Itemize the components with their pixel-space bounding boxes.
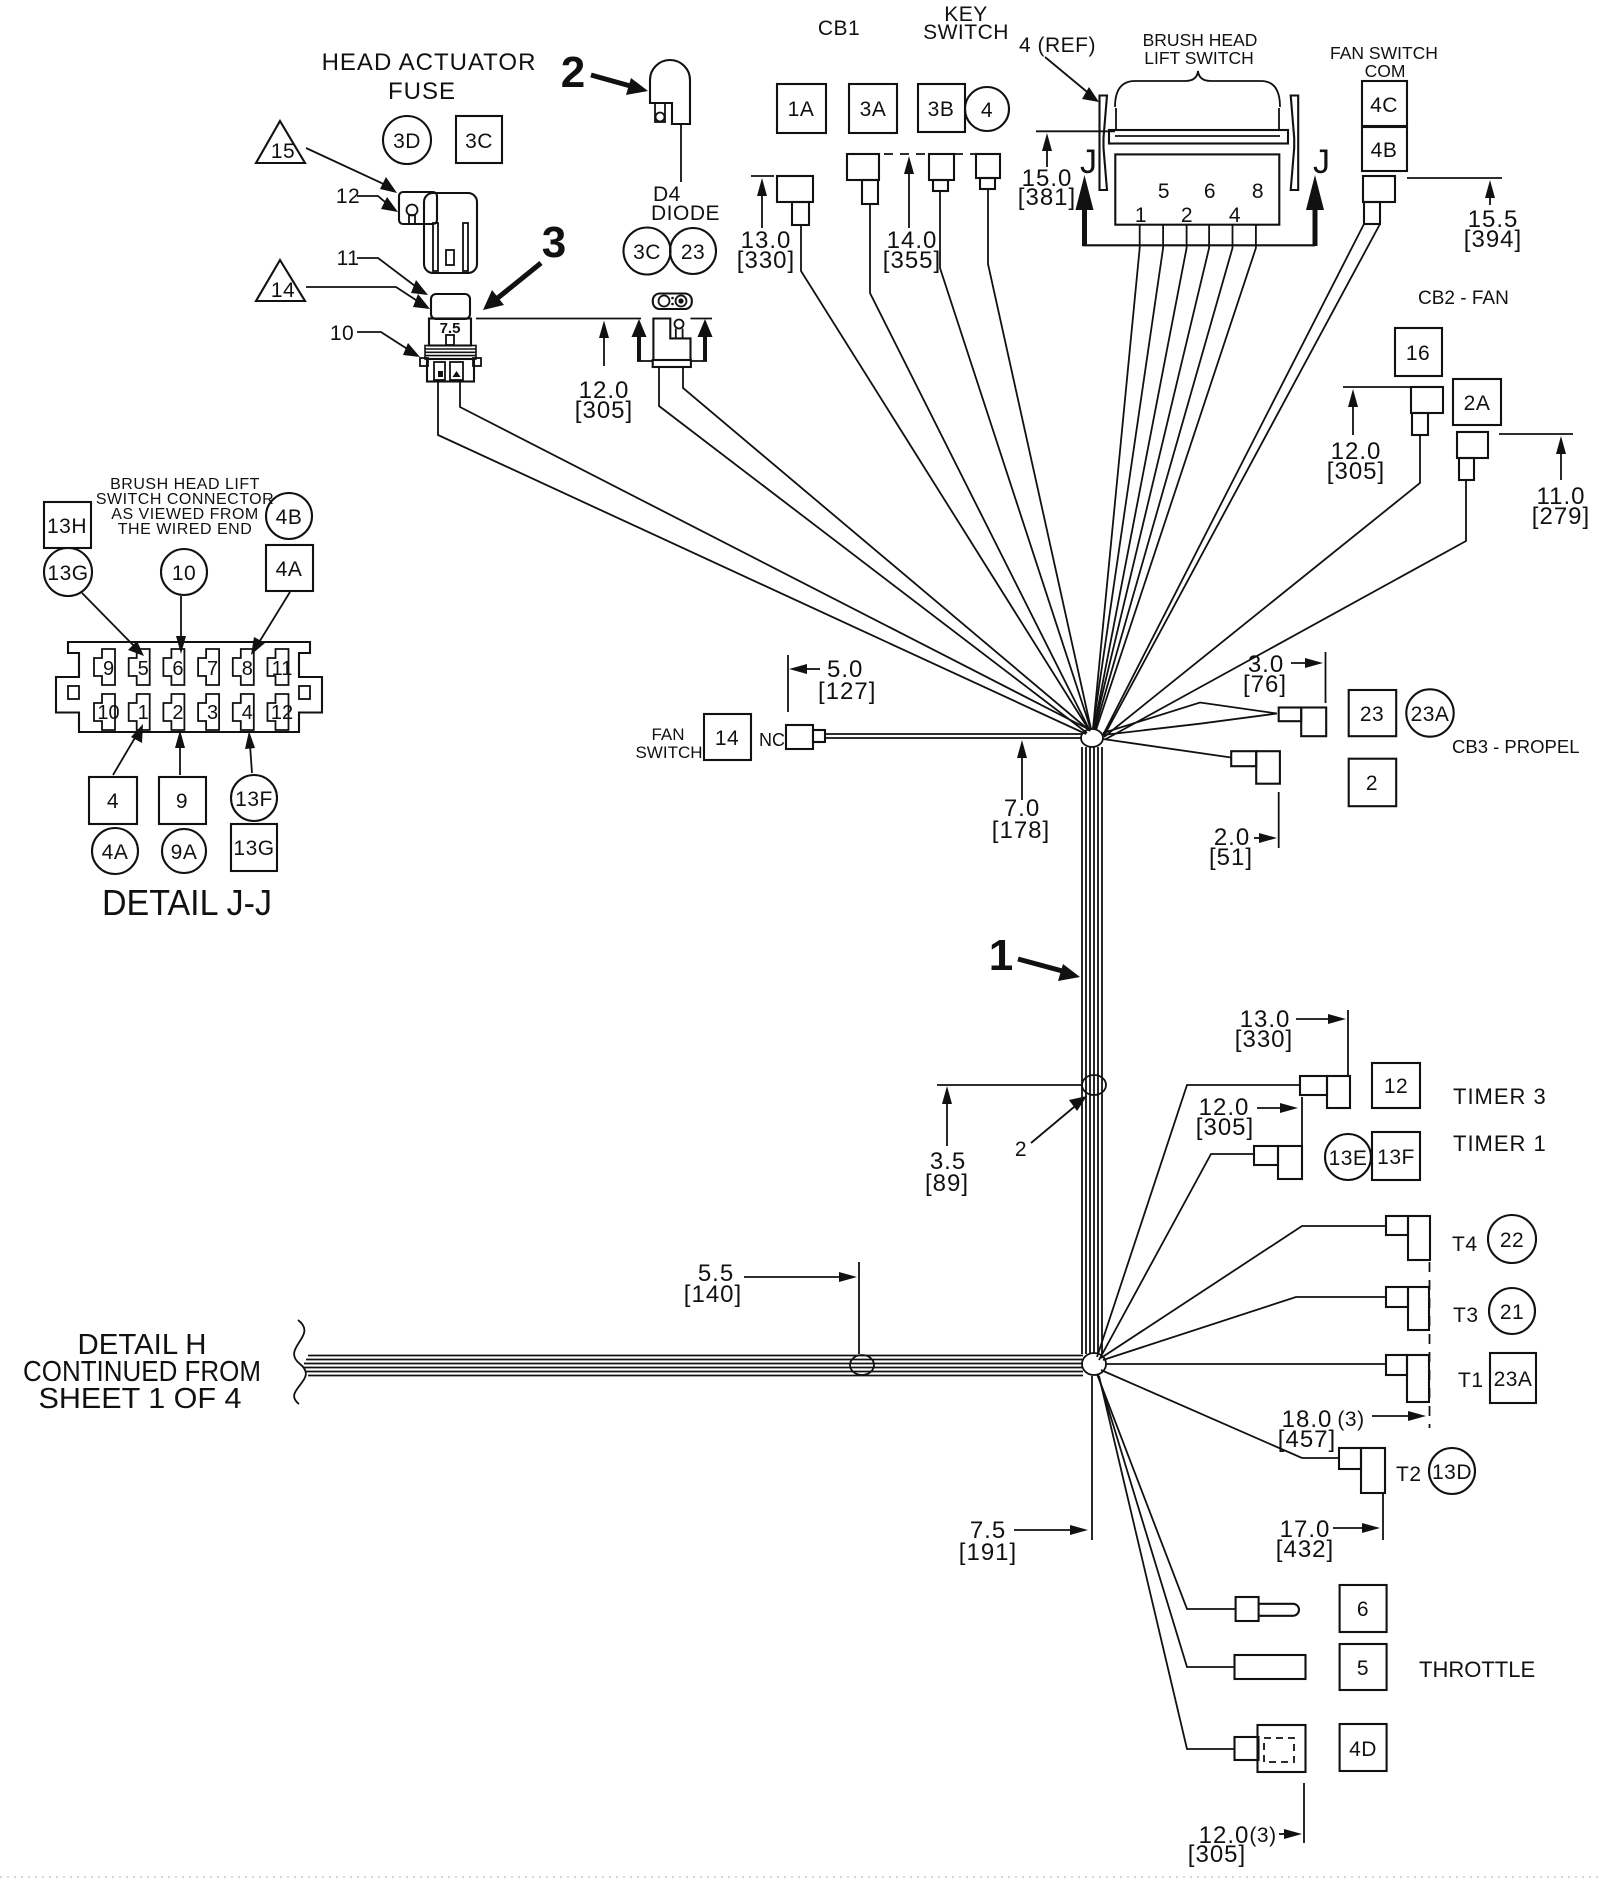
svg-text:COM: COM — [1365, 61, 1406, 81]
svg-text:1: 1 — [989, 931, 1013, 980]
svg-text:22: 22 — [1500, 1229, 1524, 1252]
svg-text:6: 6 — [1204, 180, 1216, 203]
svg-text:13F: 13F — [235, 788, 273, 811]
svg-text:13E: 13E — [1329, 1147, 1368, 1170]
svg-text:DIODE: DIODE — [651, 202, 720, 225]
svg-text:DETAIL J-J: DETAIL J-J — [102, 882, 272, 923]
svg-text:4: 4 — [1229, 204, 1241, 227]
svg-text:2: 2 — [172, 702, 183, 724]
svg-text:(3): (3) — [1337, 1408, 1364, 1431]
svg-text:SWITCH: SWITCH — [923, 21, 1009, 44]
svg-text:3: 3 — [542, 218, 566, 267]
svg-text:[457]: [457] — [1278, 1426, 1336, 1453]
svg-text:4: 4 — [242, 702, 253, 724]
svg-text:T2: T2 — [1396, 1463, 1422, 1486]
svg-text:[127]: [127] — [818, 678, 876, 705]
svg-text:THE WIRED END: THE WIRED END — [118, 521, 253, 538]
svg-text:8: 8 — [242, 658, 253, 680]
svg-text:[279]: [279] — [1532, 503, 1590, 530]
svg-text:23A: 23A — [1494, 1368, 1533, 1391]
svg-text:[76]: [76] — [1243, 671, 1287, 698]
svg-text:CB1: CB1 — [818, 17, 860, 40]
svg-text:FAN: FAN — [651, 725, 684, 744]
svg-text:3A: 3A — [860, 98, 887, 121]
svg-text:[355]: [355] — [883, 247, 941, 274]
svg-text:15: 15 — [271, 140, 295, 163]
svg-text:23A: 23A — [1411, 703, 1450, 726]
svg-text:[305]: [305] — [1188, 1841, 1246, 1868]
svg-text:23: 23 — [681, 241, 705, 264]
svg-text:12: 12 — [271, 702, 293, 724]
svg-text:13G: 13G — [47, 562, 88, 585]
svg-text:T4: T4 — [1452, 1233, 1478, 1256]
svg-text:2A: 2A — [1464, 392, 1491, 415]
svg-text:SHEET 1 OF 4: SHEET 1 OF 4 — [39, 1383, 242, 1415]
svg-text:3C: 3C — [465, 130, 493, 153]
svg-text:4: 4 — [981, 99, 993, 122]
svg-text:1: 1 — [138, 702, 149, 724]
svg-text:[178]: [178] — [992, 817, 1050, 844]
svg-text:[330]: [330] — [737, 247, 795, 274]
svg-text:2: 2 — [1015, 1138, 1027, 1161]
svg-text:[51]: [51] — [1209, 844, 1253, 871]
svg-text:THROTTLE: THROTTLE — [1419, 1657, 1535, 1682]
svg-text:4D: 4D — [1349, 1738, 1377, 1761]
svg-text:[191]: [191] — [959, 1539, 1017, 1566]
svg-text:12: 12 — [1384, 1075, 1408, 1098]
svg-text:[305]: [305] — [1196, 1114, 1254, 1141]
svg-text:J: J — [1080, 143, 1097, 181]
svg-text:[432]: [432] — [1276, 1536, 1334, 1563]
svg-text:10: 10 — [97, 702, 119, 724]
svg-text:CB2 - FAN: CB2 - FAN — [1418, 288, 1509, 309]
svg-text:BRUSH HEAD: BRUSH HEAD — [1143, 30, 1258, 50]
svg-text:6: 6 — [172, 658, 183, 680]
svg-text:T1: T1 — [1458, 1369, 1484, 1392]
svg-text:6: 6 — [1357, 1598, 1369, 1621]
svg-text:9A: 9A — [171, 841, 198, 864]
svg-text:5: 5 — [138, 658, 149, 680]
svg-text:[381]: [381] — [1018, 184, 1076, 211]
svg-text:[394]: [394] — [1464, 226, 1522, 253]
svg-text:1: 1 — [1135, 204, 1147, 227]
svg-text:11: 11 — [337, 247, 360, 270]
svg-text:14: 14 — [271, 279, 295, 302]
svg-text:11: 11 — [272, 658, 293, 680]
svg-text:4 (REF): 4 (REF) — [1019, 34, 1096, 57]
svg-text:4B: 4B — [1371, 139, 1398, 162]
svg-text:9: 9 — [103, 658, 114, 680]
svg-text:13F: 13F — [1377, 1146, 1415, 1169]
svg-text:3: 3 — [207, 702, 218, 724]
svg-text:5: 5 — [1357, 1657, 1369, 1680]
svg-text:TIMER 3: TIMER 3 — [1453, 1084, 1547, 1109]
svg-text:FAN SWITCH: FAN SWITCH — [1330, 43, 1438, 63]
svg-text:23: 23 — [1360, 703, 1384, 726]
svg-text:13H: 13H — [47, 515, 87, 538]
svg-text:4A: 4A — [102, 841, 129, 864]
svg-text:7: 7 — [207, 658, 218, 680]
svg-text:3B: 3B — [928, 98, 955, 121]
svg-text:2: 2 — [561, 48, 585, 97]
svg-text:LIFT SWITCH: LIFT SWITCH — [1144, 48, 1254, 68]
svg-text:FUSE: FUSE — [388, 78, 456, 105]
svg-text:[305]: [305] — [575, 397, 633, 424]
svg-text:2: 2 — [1366, 772, 1378, 795]
svg-text:13D: 13D — [1432, 1461, 1472, 1484]
svg-text:8: 8 — [1252, 180, 1264, 203]
svg-text:[89]: [89] — [925, 1170, 969, 1197]
svg-text:CB3 - PROPEL: CB3 - PROPEL — [1452, 736, 1580, 757]
svg-text:12: 12 — [336, 185, 360, 208]
svg-text:NC: NC — [759, 730, 785, 750]
svg-text:4: 4 — [107, 790, 119, 813]
svg-text:HEAD ACTUATOR: HEAD ACTUATOR — [322, 49, 537, 76]
svg-text:10: 10 — [330, 322, 354, 345]
svg-text:J: J — [1313, 143, 1330, 181]
svg-text:T3: T3 — [1453, 1304, 1479, 1327]
svg-text:16: 16 — [1406, 342, 1430, 365]
svg-text:21: 21 — [1500, 1301, 1524, 1324]
svg-text:[305]: [305] — [1327, 458, 1385, 485]
svg-text:SWITCH: SWITCH — [635, 743, 702, 762]
svg-text:5: 5 — [1158, 180, 1170, 203]
svg-text:[330]: [330] — [1235, 1026, 1293, 1053]
svg-text:[140]: [140] — [684, 1281, 742, 1308]
svg-text:4A: 4A — [276, 558, 303, 581]
svg-text:3D: 3D — [393, 130, 421, 153]
svg-text:TIMER 1: TIMER 1 — [1453, 1131, 1547, 1156]
svg-text:10: 10 — [172, 562, 196, 585]
svg-text:1A: 1A — [788, 98, 815, 121]
svg-text:4B: 4B — [276, 506, 303, 529]
svg-text:(3): (3) — [1249, 1824, 1276, 1847]
svg-text:3C: 3C — [633, 241, 661, 264]
svg-text:9: 9 — [176, 790, 188, 813]
svg-text:13G: 13G — [233, 837, 274, 860]
svg-text:2: 2 — [1181, 204, 1193, 227]
svg-text:14: 14 — [715, 727, 739, 750]
svg-text:4C: 4C — [1370, 94, 1398, 117]
